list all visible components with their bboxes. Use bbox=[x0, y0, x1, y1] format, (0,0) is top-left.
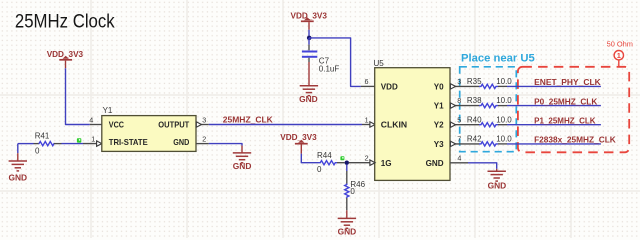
svg-text:Y1: Y1 bbox=[103, 106, 113, 115]
svg-text:50 Ohm: 50 Ohm bbox=[607, 40, 633, 49]
svg-text:GND: GND bbox=[173, 138, 189, 147]
svg-text:VDD_3V3: VDD_3V3 bbox=[280, 133, 317, 142]
svg-text:Y1: Y1 bbox=[434, 102, 444, 111]
svg-text:10.0: 10.0 bbox=[496, 96, 512, 105]
svg-text:0: 0 bbox=[35, 146, 40, 155]
svg-text:2: 2 bbox=[365, 154, 369, 163]
svg-text:0.1uF: 0.1uF bbox=[319, 65, 340, 74]
svg-text:6: 6 bbox=[365, 77, 369, 86]
svg-text:Place near U5: Place near U5 bbox=[461, 53, 535, 65]
svg-text:2: 2 bbox=[202, 134, 206, 143]
svg-text:Y0: Y0 bbox=[434, 82, 444, 91]
svg-text:P0_25MHZ_CLK: P0_25MHZ_CLK bbox=[534, 96, 598, 106]
svg-text:3: 3 bbox=[457, 77, 461, 86]
svg-text:GND: GND bbox=[299, 94, 318, 104]
svg-text:5: 5 bbox=[457, 115, 461, 124]
svg-text:R38: R38 bbox=[467, 96, 482, 105]
svg-text:Y3: Y3 bbox=[434, 140, 444, 149]
svg-text:10.0: 10.0 bbox=[496, 115, 512, 124]
svg-text:1G: 1G bbox=[381, 159, 392, 168]
svg-text:OUTPUT: OUTPUT bbox=[158, 120, 189, 129]
svg-text:GND: GND bbox=[338, 226, 357, 236]
svg-text:8: 8 bbox=[457, 96, 461, 105]
svg-text:CLKIN: CLKIN bbox=[381, 121, 407, 130]
svg-text:R44: R44 bbox=[317, 151, 332, 160]
svg-text:VDD_3V3: VDD_3V3 bbox=[47, 50, 84, 59]
svg-text:GND: GND bbox=[233, 161, 252, 171]
svg-text:0: 0 bbox=[317, 165, 322, 174]
svg-text:10.0: 10.0 bbox=[496, 135, 512, 144]
svg-text:VCC: VCC bbox=[109, 120, 124, 129]
svg-text:4: 4 bbox=[89, 115, 93, 124]
svg-text:1: 1 bbox=[365, 115, 369, 124]
svg-text:Y2: Y2 bbox=[434, 121, 444, 130]
svg-text:VDD_3V3: VDD_3V3 bbox=[290, 12, 327, 21]
svg-text:F2838x_25MHZ_CLK: F2838x_25MHZ_CLK bbox=[534, 135, 616, 145]
svg-text:R40: R40 bbox=[467, 115, 482, 124]
svg-text:P1_25MHZ_CLK: P1_25MHZ_CLK bbox=[534, 116, 596, 126]
svg-text:ENET_PHY_CLK: ENET_PHY_CLK bbox=[534, 77, 601, 87]
svg-text:GND: GND bbox=[488, 181, 507, 191]
svg-text:R35: R35 bbox=[467, 77, 482, 86]
svg-text:1: 1 bbox=[91, 134, 95, 143]
svg-text:U5: U5 bbox=[374, 59, 385, 68]
svg-text:10.0: 10.0 bbox=[496, 77, 512, 86]
svg-text:R42: R42 bbox=[467, 135, 482, 144]
svg-text:GND: GND bbox=[426, 159, 444, 168]
svg-text:GND: GND bbox=[8, 173, 27, 183]
svg-text:R41: R41 bbox=[35, 131, 50, 140]
svg-text:25MHz Clock: 25MHz Clock bbox=[15, 11, 115, 33]
svg-text:VDD: VDD bbox=[381, 82, 398, 91]
svg-text:7: 7 bbox=[457, 135, 461, 144]
svg-text:1: 1 bbox=[617, 51, 621, 60]
svg-text:25MHZ_CLK: 25MHZ_CLK bbox=[223, 115, 274, 125]
svg-text:3: 3 bbox=[202, 115, 206, 124]
svg-text:TRI-STATE: TRI-STATE bbox=[109, 138, 148, 147]
svg-text:0: 0 bbox=[350, 187, 355, 196]
svg-text:4: 4 bbox=[457, 153, 461, 162]
